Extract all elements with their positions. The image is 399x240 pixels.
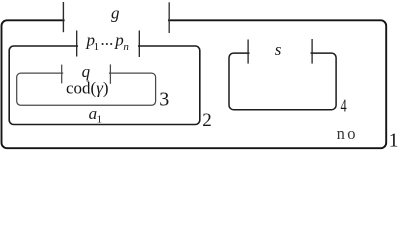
svg-text:4: 4	[341, 96, 347, 116]
gap in box 3 top border for label q	[63, 71, 109, 76]
svg-text:1: 1	[389, 131, 399, 152]
tick right of s	[311, 39, 313, 64]
cdots between p1 and pn	[102, 43, 104, 45]
svg-text:2: 2	[202, 110, 212, 131]
tick right of g	[168, 2, 170, 33]
membrane box 1 (outer)	[2, 20, 387, 148]
membrane box 3	[17, 73, 156, 105]
svg-text:cod(γ): cod(γ)	[66, 79, 109, 98]
tick left of q	[61, 65, 63, 84]
membrane box 4	[229, 53, 336, 110]
tick left of g	[62, 2, 64, 32]
tick right of q	[109, 64, 111, 83]
gap in box 1 top border for label g	[65, 17, 168, 24]
tick left of s	[247, 40, 249, 64]
tick right of p1...pn	[138, 31, 140, 58]
gap in box 2 top border for label p1...pn	[78, 43, 138, 49]
svg-text:g: g	[111, 4, 120, 23]
membrane box 2	[9, 46, 200, 125]
tick left of p1...pn	[76, 31, 78, 57]
svg-text:3: 3	[159, 89, 169, 111]
svg-text:no: no	[337, 124, 358, 143]
gap in box 4 top border for label s	[250, 50, 311, 55]
svg-text:n: n	[123, 41, 129, 53]
svg-text:s: s	[275, 40, 282, 59]
